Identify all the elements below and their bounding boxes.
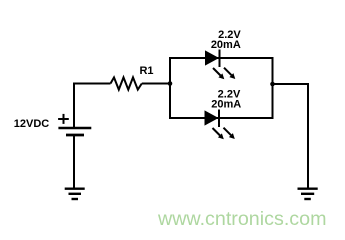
right bus wire: [272, 57, 274, 119]
left bus wire: [169, 57, 171, 119]
battery + polarity mark: [58, 114, 69, 124]
node A junction dot: [168, 81, 173, 86]
left ground: [65, 189, 85, 199]
node B junction dot: [270, 82, 275, 87]
wire resistor to node A: [142, 83, 170, 85]
LED D2 emission arrows: [213, 128, 235, 140]
resistor R1: [111, 77, 142, 89]
wire node B to right ground: [273, 84, 309, 188]
svg-text:12VDC: 12VDC: [14, 118, 50, 130]
LED D1 emission arrows: [213, 68, 235, 80]
wire battery- to left ground: [73, 135, 75, 188]
wire battery+ to resistor: [74, 84, 111, 129]
LED D2: [205, 110, 219, 128]
right ground: [298, 189, 318, 199]
svg-text:20mA: 20mA: [211, 99, 241, 111]
svg-text:R1: R1: [139, 65, 153, 77]
LED D1: [206, 50, 220, 68]
top branch wire: [169, 57, 274, 59]
battery B1 plates: [58, 128, 91, 135]
svg-text:20mA: 20mA: [211, 39, 241, 51]
svg-text:www.cntronics.com: www.cntronics.com: [157, 208, 326, 230]
bottom branch wire: [169, 117, 274, 119]
